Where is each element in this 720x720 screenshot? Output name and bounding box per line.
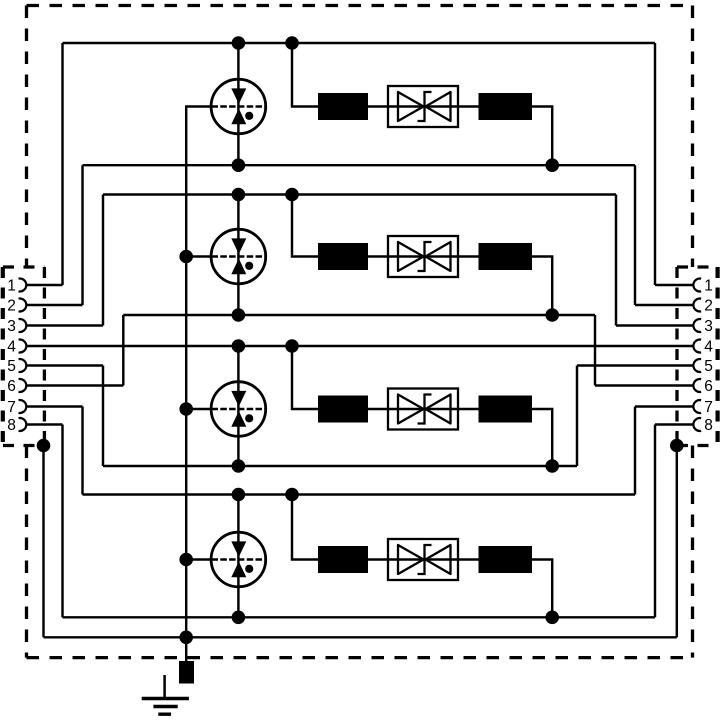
junction: channel 3 top / row riser [285,339,299,353]
wire: channel 2 row left riser [292,195,318,257]
junction: channel 1 top / row riser [285,36,299,50]
wire: right riser for pin 8 [654,425,656,618]
wire: GDT3 center electrode to earth bus [185,408,213,410]
resistor R2a [318,243,368,270]
junction: channel 1 top / GDT [232,36,246,50]
wire: left riser for pin 6 [122,315,124,386]
resistor R2b [479,243,533,270]
wire: channel 1 row right riser [532,107,552,166]
junction: right connector shield [670,439,684,453]
resistor R3a [318,396,368,423]
wire: channel 4 line b (bottom) [63,616,656,618]
pin 1 right terminal arc [693,279,701,292]
wire: GDT1 vertical through electrode [237,43,239,165]
svg-text:5: 5 [704,358,713,375]
resistor R1a [318,93,368,120]
wire: right pin 5 to riser [577,364,693,366]
wire: left pin 3 to riser [26,324,103,326]
wire: left shield riser [42,446,44,638]
wire: right pin 8 to riser [655,423,693,425]
pin 3 right terminal arc [693,319,701,332]
left connector box (unprotected side, dashed) [3,267,45,446]
junction: channel 2 bottom / row riser [545,308,559,322]
wire: left riser for pin 2 [81,165,83,305]
junction: channel 4 bottom / GDT [232,611,246,625]
junction: channel 2 top / GDT [232,188,246,202]
pin 8 left terminal arc [19,418,27,431]
svg-text:6: 6 [704,378,713,395]
svg-text:1: 1 [7,278,16,295]
junction: channel 2 top / row riser [285,188,299,202]
pin 6 left terminal arc [19,379,27,392]
junction: channel 2 bottom / GDT [232,308,246,322]
pin 2 left terminal arc [19,299,27,312]
pin 5 left terminal arc [19,359,27,372]
resistor R1b [479,93,533,120]
svg-text:1: 1 [704,278,713,295]
wire: channel 4 row through line [368,558,480,560]
pin 8 right terminal arc [693,418,701,431]
svg-text:8: 8 [7,417,16,434]
gas discharge tube F2 (3-electrode) [211,229,266,284]
wire: left riser for pin 5 [102,366,104,467]
junction: channel 1 bottom / row riser [545,158,559,172]
wire: shield equipotential line (bottom) [44,636,677,638]
pin 7 left terminal arc [19,400,27,413]
resistor R3b [479,396,533,423]
wire: right shield riser [676,446,678,638]
wire: left pin 5 to riser [26,364,103,366]
TVS suppressor diode V3 [388,389,458,430]
junction: earth bus / GDT3 electrode [179,402,193,416]
gas discharge tube F3 (3-electrode) [211,382,266,437]
svg-text:6: 6 [7,378,16,395]
wire: right riser for pin 7 [634,407,636,495]
junction: left connector shield [37,439,51,453]
PE terminal block [179,661,194,684]
wire: right pin 3 to riser [616,324,693,326]
wire: GDT2 center electrode to earth bus [185,255,213,257]
junction: channel 4 top / GDT [232,488,246,502]
wire: channel 4 row right riser [532,560,552,618]
wire: left riser for pin 7 [81,407,83,495]
wire: right riser for pin 5 [576,366,578,467]
wire: left riser for pin 3 [102,195,104,326]
wire: GDT1 center electrode to earth bus [185,105,213,107]
wire: right pin 7 to riser [635,405,693,407]
TVS suppressor diode V1 [388,86,458,127]
wire: right riser for pin 2 [634,165,636,305]
resistor R4a [318,546,368,573]
wire: GDT4 vertical through electrode [237,495,239,618]
wire: channel 2 row through line [368,255,480,257]
wire: channel 1 line a (top) [63,42,656,44]
junction: channel 3 top / GDT [232,339,246,353]
pin 3 left terminal arc [19,319,27,332]
wire: left riser for pin 8 [61,425,63,618]
svg-text:7: 7 [7,399,16,416]
wire: right pin 6 to riser [595,384,693,386]
wire: channel 2 row right riser [532,257,552,316]
svg-text:2: 2 [7,298,16,315]
ground (earth) symbol [142,675,189,714]
wire: channel 3 row through line [368,408,480,410]
wire: channel 3 row right riser [532,409,552,466]
pin 5 right terminal arc [693,359,701,372]
pin 2 right terminal arc [693,299,701,312]
wire: right riser for pin 3 [615,195,617,326]
wire: left pin 1 to riser [26,284,62,286]
wire: left pin 7 to riser [26,405,82,407]
junction: channel 1 bottom / GDT [232,158,246,172]
wire: left pin 2 to riser [26,304,82,306]
wire: left pin 6 to riser [26,384,123,386]
wire: channel 2 line a (top) [103,193,616,195]
junction: channel 3 bottom / GDT [232,459,246,473]
svg-text:3: 3 [7,318,16,335]
wire: channel 2 line b (bottom) [123,314,595,316]
pin 4 left terminal arc [19,340,27,353]
gas discharge tube F1 (3-electrode) [211,79,266,134]
pin 1 left terminal arc [19,279,27,292]
wire: GDT4 center electrode to earth bus [185,558,213,560]
wire: earth bus (vertical) [185,107,187,662]
junction: earth bus / shield line [179,631,193,645]
wire: channel 3 row left riser [292,346,318,409]
wire: GDT2 vertical through electrode [237,195,239,316]
wire: channel 3 line b (bottom) [103,465,577,467]
wire: channel 1 line b (bottom) [83,164,636,166]
junction: channel 4 top / row riser [285,488,299,502]
TVS suppressor diode V4 [388,539,458,580]
wire: right pin 1 to riser [655,284,693,286]
wire: right riser for pin 1 [654,43,656,285]
pin 7 right terminal arc [693,400,701,413]
gas discharge tube F4 (3-electrode) [211,532,266,587]
right connector box (protected side, dashed) [677,267,718,446]
junction: earth bus / GDT2 electrode [179,250,193,264]
svg-text:4: 4 [7,339,16,356]
svg-text:7: 7 [704,399,713,416]
svg-text:3: 3 [704,318,713,335]
junction: channel 3 bottom / row riser [545,459,559,473]
wire: channel 3 line a (top) [26,345,693,347]
wire: right riser for pin 6 [594,315,596,386]
svg-text:8: 8 [704,417,713,434]
svg-text:5: 5 [7,358,16,375]
resistor R4b [479,546,533,573]
wire: channel 4 row left riser [292,495,318,560]
wire: GDT3 vertical through electrode [237,346,239,466]
wire: left pin 8 to riser [26,423,62,425]
junction: channel 4 bottom / row riser [545,611,559,625]
pin 4 right terminal arc [693,340,701,353]
wire: left riser for pin 1 [61,43,63,285]
wire: channel 1 row through line [368,105,480,107]
wire: channel 4 line a (top) [83,493,636,495]
svg-text:4: 4 [704,339,713,356]
junction: earth bus / GDT4 electrode [179,553,193,567]
svg-text:2: 2 [704,298,713,315]
wire: right pin 2 to riser [635,304,693,306]
pin 6 right terminal arc [693,379,701,392]
TVS suppressor diode V2 [388,236,458,277]
wire: channel 1 row left riser [292,43,318,107]
